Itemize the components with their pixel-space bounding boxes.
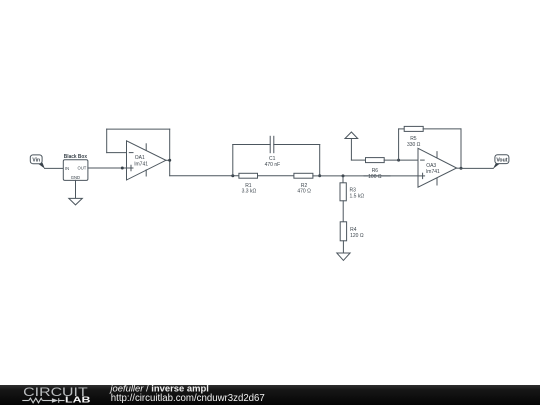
resistor R3: [340, 183, 364, 201]
node Vout tag: [493, 155, 509, 169]
wire R6 to OA3 - input: [384, 159, 418, 161]
svg-text:Black Box: Black Box: [64, 154, 88, 160]
svg-text:1.5 kΩ: 1.5 kΩ: [350, 193, 365, 199]
wire Black Box OUT to OA1 + input: [88, 167, 127, 169]
resistor R5: [404, 126, 423, 148]
wire C1 top right: [274, 144, 320, 146]
wire R5 left top: [399, 128, 405, 130]
node Vin tag: [30, 155, 45, 169]
wire supply stem: [350, 139, 352, 161]
svg-text:470 nF: 470 nF: [265, 162, 281, 168]
svg-text:lm741: lm741: [134, 161, 148, 167]
junction on OA1 + input: [121, 167, 124, 170]
svg-text:lm741: lm741: [426, 169, 440, 175]
wire R4 to ground: [342, 241, 344, 253]
wire overlay across 100 ohm label: [364, 175, 390, 177]
CircuitLab logo: [22, 385, 90, 405]
wire feedback top: [107, 128, 170, 130]
resistor R1: [239, 173, 258, 194]
capacitor C1: [265, 136, 281, 168]
svg-text:470 Ω: 470 Ω: [297, 189, 311, 195]
svg-text:OA3: OA3: [426, 163, 436, 169]
footer credit text: [108, 384, 264, 404]
wire Black Box GND down: [75, 180, 77, 198]
resistor R6: [366, 158, 385, 181]
wire R5 left vertical: [398, 129, 400, 160]
resistor R2: [294, 173, 313, 194]
op-amp OA3: [418, 148, 457, 187]
wire OA1 inverting input: [107, 152, 127, 154]
wire supply to R6: [351, 159, 365, 161]
footer bar: [0, 385, 540, 405]
svg-text:330 Ω: 330 Ω: [407, 142, 421, 148]
wire OA3 output to Vout: [461, 167, 493, 169]
svg-text:Vout: Vout: [496, 158, 507, 164]
junction R5 left: [397, 159, 400, 162]
svg-text:Vin: Vin: [32, 158, 40, 164]
wire OA3 output stub: [457, 167, 461, 169]
junction OA1 output: [168, 159, 171, 162]
wire R5 right vertical: [460, 129, 462, 168]
junction C1 left branch: [231, 174, 234, 177]
ground under R4: [337, 253, 350, 260]
wire C1 left vertical: [232, 145, 234, 176]
svg-text:IN: IN: [65, 166, 69, 171]
wire R3 to R4: [342, 201, 344, 222]
power supply arrow node: [345, 132, 358, 139]
wire C1 right vertical: [319, 145, 321, 176]
svg-text:http://circuitlab.com/cnduwr3z: http://circuitlab.com/cnduwr3zd2d67: [111, 393, 265, 404]
wire R5 right top: [423, 128, 461, 130]
black box U1: [63, 154, 88, 180]
ground under Black Box: [69, 198, 83, 205]
wire R3 top: [342, 176, 344, 183]
resistor R4: [340, 222, 364, 241]
svg-text:OUT: OUT: [77, 166, 86, 171]
junction OA3 output: [460, 167, 463, 170]
wire OA1 output to R1: [170, 175, 239, 177]
junction R3 branch: [342, 174, 345, 177]
svg-text:LAB: LAB: [65, 395, 91, 404]
wire OA1 output vertical: [169, 129, 171, 176]
wire feedback left vertical: [106, 129, 108, 153]
svg-text:OA1: OA1: [135, 155, 145, 161]
wire R1 to R2: [258, 175, 294, 177]
wire Vin to Black Box IN: [45, 167, 64, 169]
wire OA1 output stub: [166, 159, 170, 161]
wire C1 top left: [233, 144, 270, 146]
svg-text:120 Ω: 120 Ω: [350, 233, 364, 239]
wire R2 to OA3 + input: [313, 175, 418, 177]
op-amp OA1: [127, 141, 166, 180]
svg-text:100 Ω: 100 Ω: [368, 174, 382, 180]
junction C1 right branch: [318, 174, 321, 177]
svg-text:3.3 kΩ: 3.3 kΩ: [242, 189, 257, 195]
svg-text:GND: GND: [71, 175, 80, 180]
svg-text:R6: R6: [372, 168, 379, 174]
